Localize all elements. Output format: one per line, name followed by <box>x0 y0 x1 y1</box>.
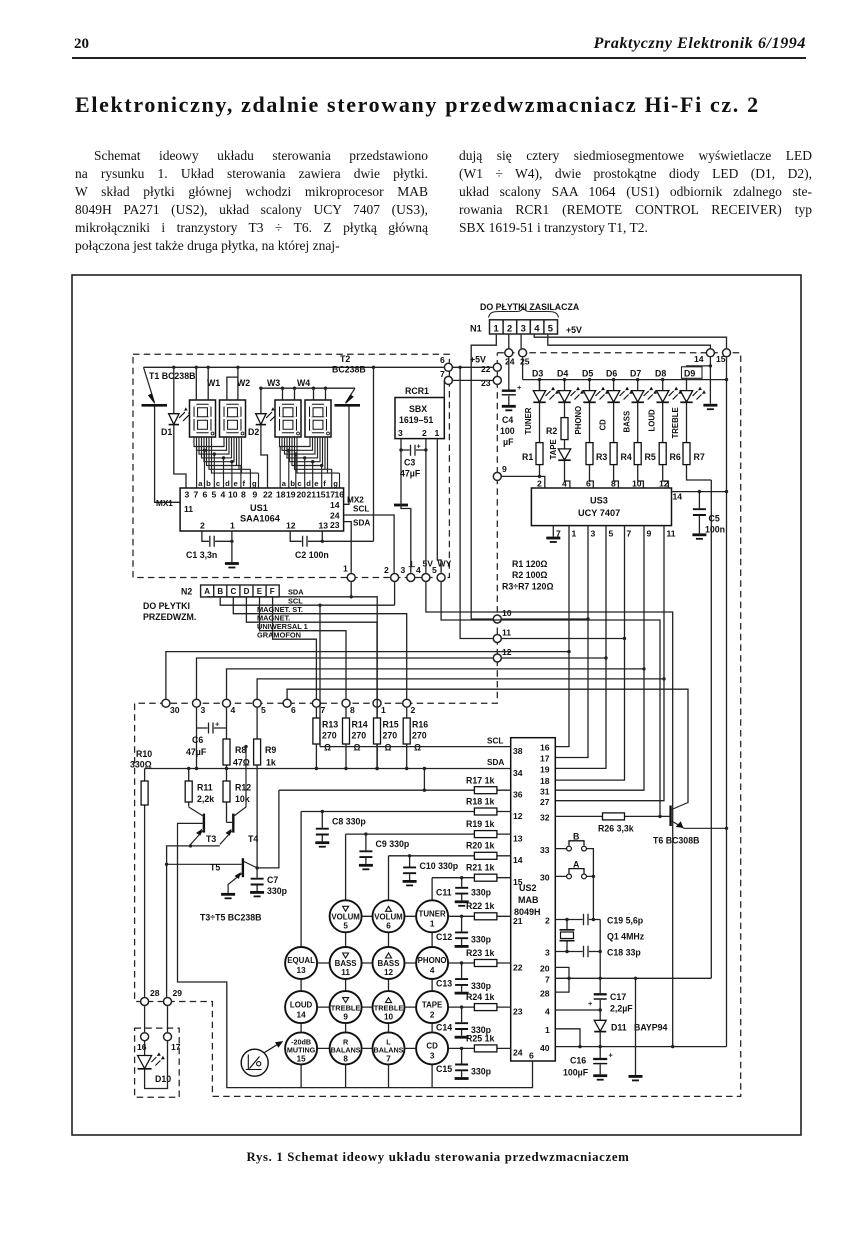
svg-text:7: 7 <box>194 490 199 500</box>
svg-text:C13: C13 <box>436 979 452 989</box>
svg-text:14: 14 <box>673 492 683 502</box>
svg-text:11: 11 <box>341 968 350 977</box>
svg-text:BC238B: BC238B <box>332 365 366 375</box>
wire row3 segments <box>317 1006 417 1008</box>
svg-text:BAYP94: BAYP94 <box>634 1023 668 1033</box>
svg-text:+: + <box>517 383 522 392</box>
svg-text:C2 100n: C2 100n <box>295 550 329 560</box>
node 4 <box>422 574 430 582</box>
svg-text:Ω: Ω <box>324 743 331 753</box>
node 15 <box>723 349 731 357</box>
resistor R23 keypad row 2 <box>447 948 511 967</box>
svg-text:6: 6 <box>440 355 445 365</box>
svg-text:C17: C17 <box>610 992 626 1002</box>
wire col3 segments <box>388 931 390 1087</box>
resistor value notes <box>502 559 554 592</box>
button EQUAL 13 <box>285 947 317 979</box>
svg-text:R11: R11 <box>197 783 213 793</box>
svg-text:6: 6 <box>386 922 391 931</box>
node 12 <box>493 654 501 662</box>
svg-text:330Ω: 330Ω <box>130 760 152 770</box>
LED D3 <box>532 369 559 403</box>
node 7b <box>312 699 320 707</box>
svg-text:a: a <box>282 479 287 488</box>
svg-text:D1: D1 <box>161 427 172 437</box>
node 3b <box>193 699 201 707</box>
svg-text:2: 2 <box>430 1010 435 1019</box>
resistor R8 <box>223 708 250 781</box>
svg-text:T2: T2 <box>340 354 350 364</box>
svg-text:7: 7 <box>386 1054 391 1063</box>
wire node 7 to node 23 <box>453 379 493 381</box>
svg-text:31: 31 <box>540 787 550 797</box>
svg-text:25: 25 <box>520 357 530 367</box>
wire node 3b riser to node 12 line <box>197 658 607 699</box>
node 6 <box>444 363 452 371</box>
svg-text:8: 8 <box>350 705 355 715</box>
svg-text:15: 15 <box>316 490 326 500</box>
button MUTING 15 <box>285 1032 317 1064</box>
svg-text:N2: N2 <box>181 587 192 597</box>
capacitor C3 <box>399 442 427 479</box>
svg-text:R24 1k: R24 1k <box>466 992 494 1002</box>
wire US2 pin7 line <box>555 977 711 979</box>
svg-text:T4: T4 <box>248 834 258 844</box>
svg-text:BALANS: BALANS <box>374 1045 404 1054</box>
svg-text:B: B <box>217 587 223 596</box>
svg-text:33: 33 <box>540 845 550 855</box>
button PHONO 4 <box>416 947 448 979</box>
svg-text:W3: W3 <box>267 378 280 388</box>
display W4 <box>297 378 331 437</box>
resistor R22 keypad row 1 <box>447 901 511 920</box>
svg-text:4: 4 <box>430 966 435 975</box>
svg-text:2: 2 <box>545 916 550 926</box>
svg-text:R1 120Ω: R1 120Ω <box>512 559 547 569</box>
svg-text:+: + <box>588 999 593 1008</box>
svg-text:330p: 330p <box>471 888 492 898</box>
wire node 11 line <box>502 638 625 640</box>
svg-text:23: 23 <box>513 1007 523 1017</box>
svg-text:D10: D10 <box>155 1074 171 1084</box>
svg-text:VOLUM: VOLUM <box>331 913 360 922</box>
wire US2 pin1 stub <box>555 1029 580 1047</box>
node 5b <box>253 699 261 707</box>
wire emitter bus T3 T4 to node 29 <box>167 846 220 997</box>
svg-text:27: 27 <box>540 797 550 807</box>
wire node28 to node16 <box>144 1006 146 1032</box>
svg-text:C16: C16 <box>570 1056 586 1066</box>
svg-text:5: 5 <box>548 323 553 334</box>
svg-text:EQUAL: EQUAL <box>287 956 315 965</box>
svg-text:1: 1 <box>430 920 435 929</box>
svg-text:C3: C3 <box>404 458 415 468</box>
wire SCL from N2-B <box>220 597 394 747</box>
capacitor C8 <box>315 810 366 847</box>
svg-text:9: 9 <box>647 529 652 539</box>
diode TAPE under R2 <box>558 449 570 488</box>
ground RCR1 <box>394 504 408 507</box>
resistor R13 <box>313 708 338 769</box>
svg-text:16: 16 <box>540 743 550 753</box>
svg-text:c: c <box>216 479 220 488</box>
svg-text:T1 BC238B: T1 BC238B <box>149 371 195 381</box>
svg-text:5V: 5V <box>423 559 434 569</box>
resistor R3 <box>586 402 607 488</box>
svg-text:T3÷T5 BC238B: T3÷T5 BC238B <box>200 913 262 923</box>
svg-text:BASS: BASS <box>622 411 631 433</box>
IC US1 SAA1064 <box>156 488 370 531</box>
svg-text:CD: CD <box>426 1041 438 1050</box>
svg-text:R15: R15 <box>383 720 399 730</box>
transistor T5 <box>165 858 257 898</box>
svg-text:1: 1 <box>230 521 235 531</box>
svg-text:D5: D5 <box>582 369 593 379</box>
svg-text:VOLUM: VOLUM <box>374 913 403 922</box>
node 7 <box>444 376 452 384</box>
svg-text:d: d <box>306 479 311 488</box>
svg-text:6: 6 <box>291 705 296 715</box>
svg-text:UCY 7407: UCY 7407 <box>578 508 620 518</box>
svg-text:Q1 4MHz: Q1 4MHz <box>607 932 645 942</box>
node 14 <box>706 349 714 357</box>
wire US3 pin1 to US2 pin16 <box>555 526 569 747</box>
svg-text:LOUD: LOUD <box>647 409 656 431</box>
display W1 <box>190 378 221 437</box>
capacitor C15 <box>436 1047 492 1079</box>
svg-text:R21 1k: R21 1k <box>466 863 494 873</box>
ground branch right <box>635 978 637 1075</box>
svg-text:10: 10 <box>632 479 642 489</box>
svg-text:3: 3 <box>398 428 403 438</box>
resistor R15 <box>374 708 399 769</box>
resistor R24 keypad row 3 <box>447 992 511 1011</box>
svg-text:3: 3 <box>185 490 190 500</box>
svg-text:11: 11 <box>667 529 676 539</box>
wire SCL to US2 pin38 <box>320 746 511 748</box>
svg-text:9: 9 <box>343 1012 348 1021</box>
node 25 <box>519 349 527 357</box>
svg-text:R22 1k: R22 1k <box>466 901 494 911</box>
svg-text:SDA: SDA <box>288 588 304 597</box>
svg-text:C9 330p: C9 330p <box>376 839 410 849</box>
svg-text:7: 7 <box>627 529 632 539</box>
svg-text:F: F <box>270 587 275 596</box>
svg-text:E: E <box>257 587 263 596</box>
switch symbol circle with arrow <box>241 1041 283 1076</box>
main board dashed outline <box>135 353 741 1097</box>
svg-text:f: f <box>243 479 246 488</box>
svg-text:TUNER: TUNER <box>419 910 446 919</box>
wire node 4 riser to R7 vertical <box>426 582 673 1047</box>
svg-text:T3: T3 <box>206 834 216 844</box>
svg-text:3: 3 <box>201 705 206 715</box>
wire +5V rail A <box>144 366 444 368</box>
svg-text:R3: R3 <box>596 452 607 462</box>
svg-text:R2 100Ω: R2 100Ω <box>512 570 547 580</box>
svg-text:BASS: BASS <box>335 959 357 968</box>
node 29 <box>164 998 172 1006</box>
svg-text:Ω: Ω <box>414 743 421 753</box>
svg-text:+: + <box>609 1051 614 1060</box>
svg-text:2: 2 <box>384 565 389 575</box>
wire N1-1 to node 10 <box>471 334 496 619</box>
wire RCR1 pin2 to node 4 <box>425 439 427 573</box>
transistor T3 <box>178 807 217 846</box>
junction dots SDA line <box>187 745 426 792</box>
LED D7 <box>630 369 657 403</box>
svg-text:D: D <box>244 587 250 596</box>
svg-text:TAPE: TAPE <box>549 439 558 459</box>
node 9 <box>493 472 501 480</box>
wire N1-2 to node 24 <box>508 334 510 348</box>
svg-text:1: 1 <box>572 529 577 539</box>
wire US2 pin4 stub <box>555 1009 600 1011</box>
connector N2 <box>143 585 279 622</box>
resistor R6 <box>659 402 681 488</box>
svg-text:1: 1 <box>435 428 440 438</box>
svg-text:16: 16 <box>137 1042 147 1052</box>
node 10 <box>493 615 501 623</box>
wire node 4b riser H4 <box>227 669 645 699</box>
svg-text:US1: US1 <box>250 503 268 513</box>
svg-text:D9: D9 <box>684 368 695 378</box>
svg-text:2: 2 <box>200 521 205 531</box>
wire SDA from N2-A <box>207 597 377 769</box>
svg-text:11: 11 <box>502 628 511 638</box>
svg-text:21: 21 <box>513 916 523 926</box>
svg-text:D6: D6 <box>606 369 617 379</box>
button VOLUM- 5 <box>330 900 362 932</box>
node 5 <box>437 574 445 582</box>
capacitor C17 <box>588 920 633 1021</box>
svg-text:12: 12 <box>384 968 394 977</box>
svg-text:4: 4 <box>221 490 226 500</box>
svg-text:c: c <box>297 479 301 488</box>
svg-text:38: 38 <box>513 746 523 756</box>
svg-text:7: 7 <box>440 369 445 379</box>
resistor R2 <box>546 402 568 449</box>
ground <box>225 562 239 565</box>
svg-text:Ω: Ω <box>385 743 392 753</box>
switch A <box>555 860 595 879</box>
svg-text:14: 14 <box>330 500 340 510</box>
capacitor C9 <box>359 832 410 869</box>
svg-text:7: 7 <box>545 975 550 985</box>
svg-text:R1: R1 <box>522 452 533 462</box>
capacitor C7 <box>250 866 288 896</box>
button TREBLE- 9 <box>330 991 362 1023</box>
capacitor C5 <box>692 490 725 539</box>
diode D11 <box>594 1020 667 1046</box>
connector N1 <box>470 302 582 335</box>
svg-text:C15: C15 <box>436 1064 452 1074</box>
svg-text:15: 15 <box>297 1054 306 1063</box>
button CD 3 <box>416 1032 448 1064</box>
svg-text:270: 270 <box>383 731 398 741</box>
capacitor C11 <box>436 876 492 906</box>
capacitor C16 <box>563 1047 614 1080</box>
svg-text:g: g <box>252 479 257 488</box>
button TAPE 2 <box>416 991 448 1023</box>
svg-text:SCL: SCL <box>487 737 503 746</box>
svg-text:2,2k: 2,2k <box>197 794 214 804</box>
IC RCR1 SBX1619-51 <box>395 386 444 439</box>
svg-text:330p: 330p <box>471 1067 492 1077</box>
segment fan junction dots <box>203 449 324 468</box>
ground C4 <box>502 405 516 408</box>
wire US3 pin11 to US2 pin27 <box>555 526 664 801</box>
display board dashed outline <box>133 354 449 577</box>
wire row1 segments <box>361 915 417 917</box>
svg-text:GRAMOFON: GRAMOFON <box>257 630 301 639</box>
svg-text:1k: 1k <box>266 758 276 768</box>
svg-text:PHONO: PHONO <box>574 406 583 435</box>
wire rail B W3 W4 <box>261 387 355 389</box>
svg-text:23: 23 <box>481 378 491 388</box>
wire node 25 to LED anode rail <box>522 357 524 379</box>
button L BALANS 7 <box>373 1032 405 1064</box>
svg-text:BASS: BASS <box>378 959 400 968</box>
svg-text:Ω: Ω <box>354 743 361 753</box>
node 1 <box>347 574 355 582</box>
connector node circles <box>141 349 731 1041</box>
wire D10 bottom joint <box>145 1041 168 1088</box>
svg-text:b: b <box>290 479 295 488</box>
wire N1-4 +5V rail to node 15 <box>534 334 726 348</box>
svg-text:MUTING: MUTING <box>287 1045 316 1054</box>
LED D8 <box>655 369 682 403</box>
svg-text:A: A <box>204 587 210 596</box>
wire W1 anode stubs <box>196 367 208 400</box>
svg-text:270: 270 <box>352 731 367 741</box>
wire node 14 to ground and D9 <box>687 357 718 409</box>
resistor R12 <box>223 781 251 822</box>
svg-text:TUNER: TUNER <box>524 407 533 434</box>
svg-text:C11: C11 <box>436 888 452 898</box>
button TUNER 1 <box>416 900 448 932</box>
svg-text:US3: US3 <box>590 496 608 506</box>
svg-text:C19 5,6p: C19 5,6p <box>607 916 644 926</box>
IC US3 UCY7407 <box>531 479 682 539</box>
ground <box>703 404 717 407</box>
rail junction dots display board <box>172 366 327 390</box>
svg-text:R20 1k: R20 1k <box>466 841 494 851</box>
svg-text:MX1: MX1 <box>156 499 173 508</box>
svg-text:36: 36 <box>513 790 523 800</box>
svg-text:+5V: +5V <box>470 355 486 365</box>
svg-text:R18 1k: R18 1k <box>466 797 494 807</box>
svg-text:W1: W1 <box>207 378 220 388</box>
wire branch to node 11 <box>460 367 493 638</box>
svg-text:18: 18 <box>540 776 550 786</box>
node 17 <box>164 1033 172 1041</box>
svg-text:R4: R4 <box>621 452 632 462</box>
svg-text:19: 19 <box>540 765 550 775</box>
svg-text:D7: D7 <box>630 369 641 379</box>
keypad column link segments <box>301 916 432 1087</box>
svg-text:+: + <box>417 442 422 451</box>
node 2 <box>391 574 399 582</box>
svg-text:47µF: 47µF <box>186 747 207 757</box>
svg-text:1: 1 <box>545 1025 550 1035</box>
svg-text:4: 4 <box>545 1007 550 1017</box>
wire GRAMOFON from N2-F to node 7b <box>273 597 317 699</box>
svg-text:2: 2 <box>537 479 542 489</box>
node 6b <box>283 699 291 707</box>
svg-text:6: 6 <box>203 490 208 500</box>
svg-text:C1 3,3n: C1 3,3n <box>186 550 217 560</box>
IC US2 MAB8049H <box>511 738 556 1061</box>
wire LED anode rail <box>523 380 727 391</box>
svg-text:DO PŁYTKI: DO PŁYTKI <box>143 601 190 611</box>
svg-text:3: 3 <box>521 323 526 334</box>
resistor R14 <box>343 708 368 769</box>
capacitor C2 <box>290 366 375 560</box>
svg-text:C6: C6 <box>192 735 203 745</box>
wire col2 segments <box>345 931 347 1087</box>
svg-text:12: 12 <box>659 479 669 489</box>
svg-text:12: 12 <box>286 521 296 531</box>
wire node 5 riser <box>441 582 660 816</box>
capacitor C13 <box>436 961 492 993</box>
LED D10 board <box>138 1006 172 1088</box>
transistor T4 <box>220 747 259 845</box>
wire US3 pin5 to US2 pin19 <box>555 526 606 769</box>
svg-text:µF: µF <box>503 437 514 447</box>
svg-text:8: 8 <box>343 1054 348 1063</box>
svg-text:LOUD: LOUD <box>290 1000 313 1009</box>
svg-text:R2: R2 <box>546 426 557 436</box>
wire col1 segments <box>300 978 302 1088</box>
segment letter labels a-g <box>198 479 338 488</box>
svg-text:1619–51: 1619–51 <box>399 415 433 425</box>
transistor T2 <box>332 354 366 504</box>
svg-text:330p: 330p <box>471 935 492 945</box>
svg-text:3: 3 <box>545 948 550 958</box>
svg-text:BALANS: BALANS <box>331 1045 361 1054</box>
capacitor C10 <box>403 854 459 885</box>
resistor R5 <box>634 402 656 488</box>
node 22 <box>493 363 501 371</box>
svg-text:16: 16 <box>335 490 345 500</box>
wire US3 pin9 to US2 pin31 <box>555 526 644 791</box>
LED D10 <box>138 1056 152 1069</box>
svg-text:14: 14 <box>297 1010 307 1019</box>
svg-text:32: 32 <box>540 813 550 823</box>
svg-text:R5: R5 <box>645 452 656 462</box>
wire W2 anode bridge <box>227 367 238 400</box>
wire US3 pin3 to US2 pin17 <box>555 526 588 758</box>
svg-text:A: A <box>573 860 580 870</box>
svg-text:20: 20 <box>540 964 550 974</box>
LED D9 <box>680 367 706 403</box>
svg-text:PHONO: PHONO <box>418 956 447 965</box>
resistor R20 + keypad column 3 <box>389 841 511 902</box>
svg-text:270: 270 <box>322 731 337 741</box>
svg-text:6: 6 <box>586 479 591 489</box>
button VOLUM+ 6 <box>373 900 405 932</box>
svg-text:+5V: +5V <box>566 325 582 335</box>
LED D2 <box>248 388 279 488</box>
wire row2 segments <box>317 962 417 964</box>
wire N1-5 to node 14 <box>548 334 711 348</box>
LED D6 <box>606 369 633 403</box>
svg-text:3: 3 <box>401 565 406 575</box>
node 8b <box>342 699 350 707</box>
wire US2 pin20 pin28 staple <box>555 967 569 992</box>
svg-text:23: 23 <box>330 520 340 530</box>
